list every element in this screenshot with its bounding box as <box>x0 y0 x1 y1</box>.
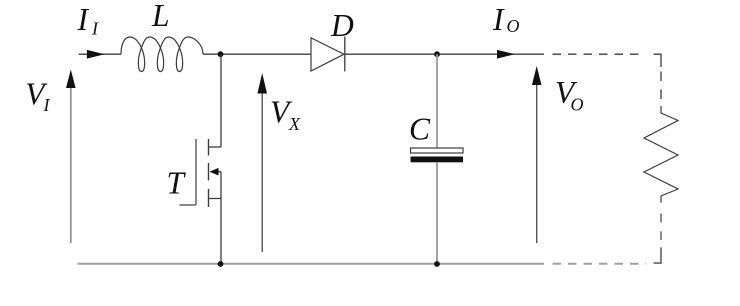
transistor T (MOSFET) <box>180 54 222 264</box>
gate lead <box>180 204 197 206</box>
node A (top of transistor) <box>218 51 224 57</box>
svg-text:I: I <box>91 18 99 38</box>
gate plate <box>195 139 197 205</box>
svg-text:X: X <box>288 114 301 134</box>
cap top plate <box>411 148 464 153</box>
body arrow <box>212 171 221 173</box>
svg-text:I: I <box>492 2 505 37</box>
wire dashed bottom-right <box>553 263 647 265</box>
label V_X <box>270 95 301 135</box>
source lead <box>209 198 222 200</box>
svg-text:I: I <box>43 95 51 115</box>
node D (bottom of capacitor) <box>434 261 440 267</box>
load resistor <box>644 106 678 203</box>
svg-text:O: O <box>571 95 584 115</box>
voltage arrow V_O <box>532 66 542 243</box>
svg-text:O: O <box>507 16 520 36</box>
channel segment top <box>208 139 210 156</box>
drain lead <box>209 146 222 148</box>
wire dashed top-right <box>553 53 644 55</box>
capacitor C <box>411 54 464 264</box>
drain wire <box>220 54 222 147</box>
channel segment bottom <box>208 189 210 207</box>
voltage arrow V_I <box>66 70 76 244</box>
bottom wire <box>78 263 545 265</box>
diode D <box>311 37 345 72</box>
voltage arrow V_X <box>257 73 267 252</box>
svg-text:C: C <box>409 112 431 147</box>
cap top wire <box>436 54 438 148</box>
wire top-left input segment <box>79 53 121 55</box>
cap bottom plate <box>411 157 464 163</box>
current arrow I_O head <box>497 50 515 59</box>
svg-text:L: L <box>151 0 170 33</box>
source wire <box>220 172 222 264</box>
cap bottom wire <box>436 162 438 263</box>
label I_O <box>492 2 520 37</box>
label I_I <box>77 2 100 38</box>
node B (top of capacitor) <box>434 51 440 57</box>
current arrow I_I head <box>87 50 105 59</box>
wire diode to output <box>345 53 544 55</box>
wire inductor to diode <box>203 53 311 55</box>
svg-text:T: T <box>167 166 187 201</box>
label V_O <box>555 75 584 115</box>
svg-text:I: I <box>77 2 90 37</box>
node C (bottom of transistor) <box>218 261 224 267</box>
label V_I <box>25 77 50 116</box>
channel segment middle <box>208 163 210 181</box>
inductor L <box>121 37 203 72</box>
svg-text:D: D <box>330 8 354 43</box>
